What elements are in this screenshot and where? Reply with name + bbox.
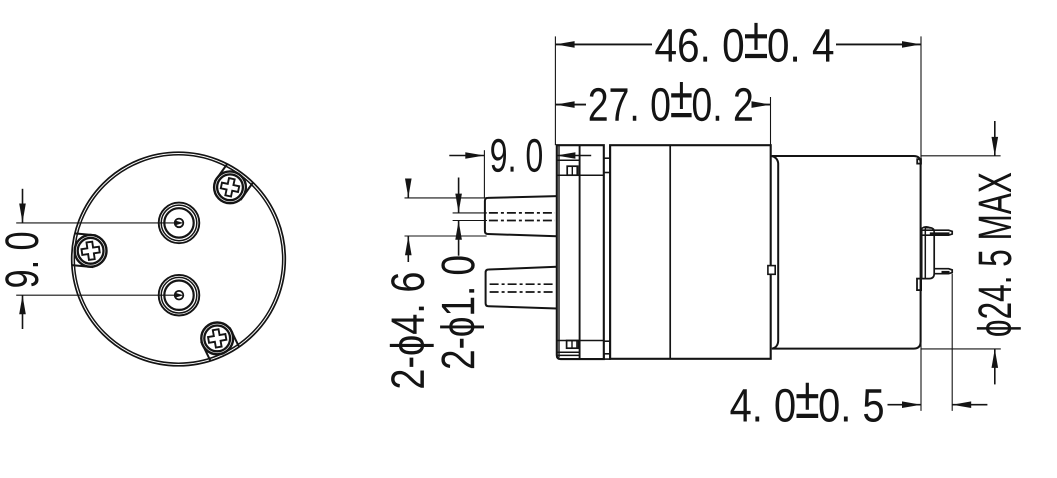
dimension 9.0 nozzle length [449,139,591,172]
bottom nozzle (side view) [486,267,557,309]
dimension 46.0±0.4 overall length [556,23,921,62]
motor end notch top [917,159,921,163]
pump front view outer circle [72,152,286,366]
terminal tab lower [934,269,953,274]
pump head bottom screw (side view) [567,341,579,349]
extension line terminal tips [951,274,953,411]
terminal bushing (side view) [922,227,934,279]
screw left (front view) [72,233,107,267]
bottom port (front view) [159,275,200,316]
extension line head front face [554,36,556,145]
pump front view inner circle [74,155,282,363]
pump head (side view) [557,145,604,359]
head-body joint plate (side view) [604,145,610,359]
clip tab on body rear edge [768,266,775,275]
top port (front view) [159,203,200,244]
dimension 2-φ1.0 nozzle bore [440,178,487,369]
motor end notch bottom [917,279,921,291]
top nozzle (side view) [485,196,557,236]
screw bottom (front view) [201,323,239,361]
dimension 27.0±0.2 pump length [556,82,771,121]
motor (side view) [772,156,921,349]
dimension φ24.5 MAX motor diameter [921,121,1021,384]
pump head top screw (side view) [567,166,578,175]
extension line nozzle tip [483,150,485,197]
dimension 9.0 port spacing (front view) [5,189,183,329]
pump body (side view) [610,145,771,359]
terminal tab upper [922,230,952,235]
screw top-right (front view) [214,164,253,203]
dimension 4.0±0.5 terminal length [731,383,988,422]
dimension 2-φ4.6 nozzle outer diameter [390,179,487,388]
extension line motor end [920,36,922,411]
extension line body rear [770,97,772,145]
